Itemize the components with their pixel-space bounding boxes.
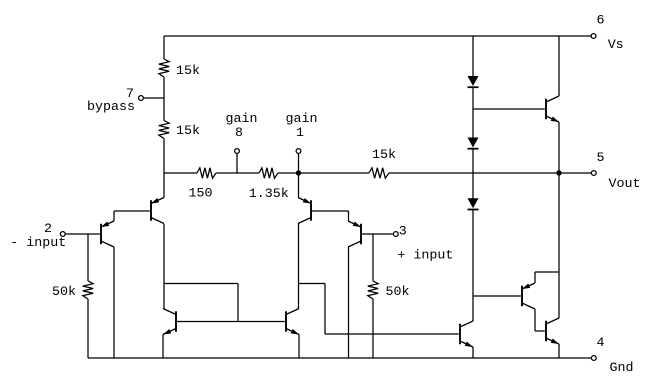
- transistor Q-top NPN output high-side: [546, 96, 559, 122]
- svg-text:- input: - input: [10, 236, 66, 251]
- wire to Q7 base: [325, 333, 459, 335]
- wire Q7 emitter to ground: [472, 347, 474, 358]
- wire mirror base rail: [176, 321, 285, 323]
- transistor Q4 NPN current mirror output: [286, 309, 299, 335]
- wire left bias column middle segment with bypass tap: [163, 77, 165, 121]
- node output junction: [556, 170, 561, 175]
- svg-text:3: 3: [399, 225, 407, 240]
- svg-text:Vs: Vs: [608, 38, 624, 53]
- svg-text:15k: 15k: [372, 148, 396, 163]
- resistor 1.35k: [259, 168, 278, 178]
- wire signal rail between 150 and 1.35k: [216, 172, 259, 174]
- wire diode chain top segment: [472, 36, 474, 76]
- pin 8 gain terminal: [235, 149, 240, 154]
- transistor Q2 PNP - input cascade: [151, 198, 164, 224]
- wire Q4 emitter to ground: [298, 335, 300, 359]
- svg-text:15k: 15k: [176, 124, 200, 139]
- svg-text:Gnd: Gnd: [610, 361, 634, 376]
- svg-text:50k: 50k: [52, 285, 76, 300]
- svg-text:8: 8: [235, 126, 243, 141]
- transistor Q9 NPN: [546, 318, 559, 344]
- wire output rail to pin 5: [389, 172, 592, 174]
- svg-text:Vout: Vout: [609, 177, 641, 192]
- svg-text:4: 4: [597, 336, 605, 351]
- diode D2: [468, 138, 479, 148]
- transistor Q7 NPN output low-side: [460, 321, 473, 347]
- wire diode chain between D1 and D2: [472, 87, 474, 137]
- svg-text:1: 1: [296, 126, 304, 141]
- wire Q4 collector column: [298, 224, 300, 309]
- wire Q6 emitter riser: [348, 211, 350, 221]
- svg-text:bypass: bypass: [87, 100, 135, 115]
- wire Q6 collector to ground: [348, 247, 350, 358]
- wire Q1 emitter riser: [113, 211, 115, 221]
- wire pin 7 to bias column: [143, 97, 164, 99]
- wire signal rail between 1.35k and 15k feedback: [278, 172, 369, 174]
- wire Q3 emitter to ground: [162, 335, 164, 359]
- wire Q1 collector to ground: [113, 247, 115, 358]
- pin 7 bypass terminal: [139, 96, 144, 101]
- svg-text:+ input: + input: [397, 249, 453, 264]
- pin 5 terminal: [591, 171, 596, 176]
- svg-text:50k: 50k: [386, 285, 410, 300]
- svg-text:6: 6: [597, 14, 605, 29]
- resistor 150: [197, 168, 216, 178]
- svg-text:150: 150: [189, 187, 213, 202]
- wire pin 2 to Q1 base: [65, 233, 100, 235]
- resistor 15k feedback: [369, 168, 389, 178]
- wire Q8 emitter riser: [534, 272, 536, 283]
- svg-text:1.35k: 1.35k: [249, 187, 289, 202]
- svg-text:15k: 15k: [176, 64, 200, 79]
- wire Q8 collector to Q9 base: [535, 330, 545, 332]
- wire Q2 collector column to mirror: [163, 224, 165, 309]
- wire Q8 collector drop: [534, 309, 536, 331]
- wire base of top output transistor: [473, 108, 545, 110]
- transistor Q1 PNP - input: [101, 221, 114, 247]
- wire Q5 base to Q6 emitter riser horizontal: [311, 210, 349, 212]
- wire output node column: [558, 173, 560, 318]
- wire second stage takeoff vertical: [324, 284, 326, 335]
- transistor Q8 PNP driver: [522, 283, 535, 309]
- diode D1: [468, 76, 479, 86]
- wire Q8 base from diode chain: [473, 295, 521, 297]
- wire signal rail left segment: [164, 172, 197, 174]
- wire second stage takeoff horizontal: [299, 283, 326, 285]
- transistor Q3 NPN current mirror (diode connected): [163, 309, 176, 335]
- pin 6 terminal: [591, 34, 596, 39]
- diode D3: [468, 198, 479, 208]
- pin 2 terminal (- input): [60, 232, 65, 237]
- resistor 15k lower bias: [159, 121, 169, 139]
- wire ground rail: [88, 357, 592, 359]
- wire pin1 node down to Q5 emitter: [298, 173, 300, 198]
- wire Q9 emitter to ground: [558, 344, 560, 358]
- wire Q-top collector to supply rail: [558, 36, 560, 96]
- resistor 15k upper bias: [159, 59, 169, 77]
- svg-text:2: 2: [44, 222, 52, 237]
- wire mirror diode-connect branch horizontal: [164, 283, 238, 285]
- wire diode chain lower segment to Q7 collector: [472, 209, 474, 321]
- pin 1 gain terminal: [296, 149, 301, 154]
- transistor Q5 PNP + input cascade: [298, 198, 311, 224]
- wire Q6 base to pin 3: [361, 233, 394, 235]
- wire 50k right lower leg: [372, 299, 374, 358]
- svg-text:gain: gain: [286, 112, 318, 127]
- transistor Q6 PNP + input: [348, 221, 361, 247]
- wire Q-top emitter to output node: [558, 122, 560, 173]
- wire 50k left upper leg: [87, 234, 89, 281]
- resistor 50k right: [368, 281, 378, 299]
- wire mirror diode-connect branch vertical: [237, 284, 239, 322]
- wire 50k left lower leg: [87, 299, 89, 358]
- wire left bias column upper segment: [163, 36, 165, 59]
- pin 3 terminal (+ input): [393, 232, 398, 237]
- wire Q1 emitter to Q2 base: [114, 210, 150, 212]
- wire pin 1 stub: [298, 153, 300, 173]
- resistor 50k left: [83, 281, 93, 299]
- wire pin 8 stub: [236, 153, 238, 173]
- wire 50k right upper leg: [372, 234, 374, 281]
- wire left bias column lower segment to Q2 emitter: [163, 139, 165, 198]
- svg-text:5: 5: [597, 151, 605, 166]
- wire top supply rail to pin 6: [164, 35, 592, 37]
- wire diode chain between D2 and D3 crossing output rail: [472, 149, 474, 199]
- node pin1 junction: [296, 170, 301, 175]
- pin 4 terminal: [591, 356, 596, 361]
- svg-text:gain: gain: [226, 112, 258, 127]
- wire Q8 emitter jog to output node: [535, 271, 559, 273]
